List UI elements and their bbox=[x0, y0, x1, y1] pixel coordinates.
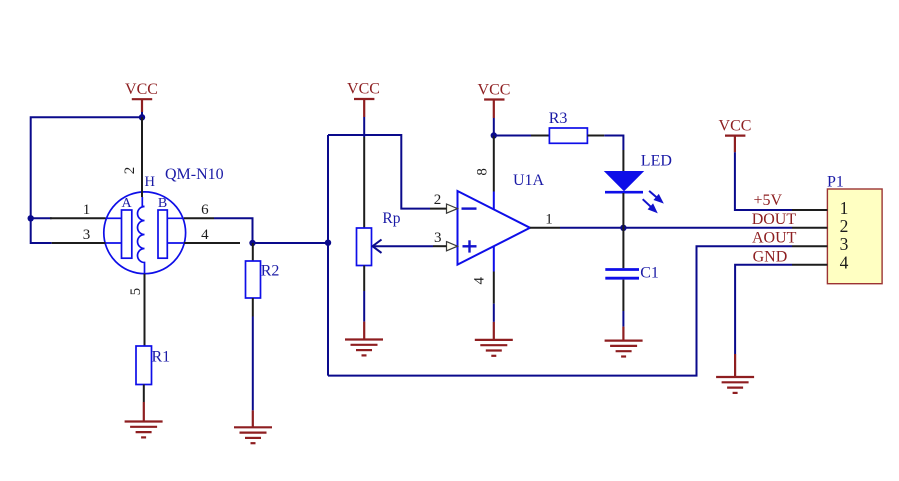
svg-text:VCC: VCC bbox=[347, 81, 380, 98]
svg-text:VCC: VCC bbox=[719, 118, 752, 135]
wire VCC to +5V pin bbox=[735, 152, 792, 210]
wire pin4 node to Rp branch node bbox=[253, 242, 329, 244]
svg-text:QM-N10: QM-N10 bbox=[165, 166, 224, 183]
svg-text:VCC: VCC bbox=[478, 82, 511, 99]
svg-text:2: 2 bbox=[122, 167, 138, 175]
wire pin6 jog down to pin4 node bbox=[214, 218, 253, 243]
wire GND pin down to ground bbox=[735, 265, 792, 354]
svg-text:R3: R3 bbox=[549, 110, 568, 127]
pin 2 of U1A bbox=[430, 192, 447, 209]
node left junction pin1 bbox=[28, 215, 34, 221]
svg-text:VCC: VCC bbox=[125, 81, 158, 98]
ground (C1) bbox=[605, 327, 643, 357]
svg-text:1: 1 bbox=[545, 212, 553, 228]
wire bottom AOUT run bbox=[328, 246, 792, 375]
wire output to DOUT bbox=[560, 227, 792, 229]
svg-text:GND: GND bbox=[753, 249, 788, 266]
pin 1 bbox=[50, 202, 106, 218]
pin 3 of P1 bbox=[792, 234, 849, 254]
svg-text:2: 2 bbox=[434, 192, 442, 208]
connector P1 bbox=[827, 174, 882, 284]
gas sensor QM-N10 body bbox=[104, 192, 186, 274]
pin 1 of U1A (output) bbox=[530, 212, 560, 228]
svg-text:3: 3 bbox=[434, 230, 442, 246]
svg-text:3: 3 bbox=[840, 234, 849, 254]
svg-text:C1: C1 bbox=[640, 265, 659, 282]
Rp wiper arrow bbox=[373, 240, 434, 253]
svg-text:H: H bbox=[145, 174, 156, 190]
ground (op-amp) bbox=[475, 322, 513, 356]
LED emission arrows bbox=[643, 191, 662, 212]
pin 3 of U1A bbox=[433, 230, 447, 246]
ground (below R2) bbox=[234, 410, 272, 443]
potentiometer Rp bbox=[357, 137, 401, 322]
node op-amp supply junction bbox=[491, 132, 497, 138]
resistor R1 bbox=[136, 346, 170, 402]
ground (below R1) bbox=[125, 402, 163, 437]
svg-text:A: A bbox=[121, 196, 132, 211]
pin 4 bbox=[184, 227, 240, 243]
svg-text:R1: R1 bbox=[152, 349, 171, 366]
svg-text:AOUT: AOUT bbox=[752, 230, 797, 247]
svg-text:5: 5 bbox=[128, 288, 144, 296]
resistor R3 bbox=[531, 110, 604, 144]
wire R3 to LED bbox=[604, 136, 623, 151]
op-amp input arrow pin 2 bbox=[447, 204, 458, 213]
pin 6 bbox=[184, 202, 214, 218]
wire top horizontal to op-amp pin2 bbox=[328, 135, 430, 209]
svg-text:4: 4 bbox=[201, 227, 209, 243]
pin 2 (heater top) bbox=[122, 117, 143, 206]
LED D1 bbox=[605, 150, 672, 228]
svg-text:8: 8 bbox=[475, 168, 491, 176]
op-amp input arrow pin 3 bbox=[447, 242, 458, 251]
op-amp U1A bbox=[458, 172, 545, 264]
pin 2 of P1 bbox=[792, 216, 848, 236]
svg-text:4: 4 bbox=[840, 253, 849, 273]
svg-text:R2: R2 bbox=[261, 263, 280, 280]
pin 4 of P1 bbox=[792, 253, 849, 273]
svg-text:3: 3 bbox=[83, 227, 91, 243]
power symbol VCC (op-amp supply) bbox=[478, 82, 511, 136]
pin 5 (heater bottom) bbox=[128, 274, 145, 346]
svg-text:DOUT: DOUT bbox=[752, 211, 797, 228]
node sensor output junction bbox=[325, 240, 331, 246]
pin 3 bbox=[52, 227, 106, 243]
wire top-left loop from VCC to electrode pins 1,3 bbox=[31, 117, 142, 243]
power symbol VCC (sensor heater supply) bbox=[125, 81, 158, 117]
svg-text:P1: P1 bbox=[827, 174, 844, 191]
heater coil inside sensor bbox=[138, 207, 145, 274]
node R2 top junction bbox=[249, 240, 255, 246]
svg-text:4: 4 bbox=[472, 277, 488, 285]
svg-text:LED: LED bbox=[641, 153, 672, 170]
svg-text:2: 2 bbox=[840, 216, 849, 236]
svg-text:1: 1 bbox=[83, 202, 91, 218]
resistor R2 bbox=[246, 243, 280, 410]
pin 1 of P1 bbox=[792, 198, 848, 218]
svg-text:6: 6 bbox=[201, 202, 209, 218]
wire vertical branch x=328 (sensor output to top wire and bottom wire) bbox=[327, 135, 329, 376]
pin 8 of U1A bbox=[475, 136, 494, 210]
power symbol VCC (Rp reference) bbox=[347, 81, 380, 138]
ground (connector) bbox=[716, 354, 754, 393]
power symbol VCC (connector +5V) bbox=[719, 118, 752, 153]
capacitor C1 bbox=[605, 228, 659, 327]
svg-text:U1A: U1A bbox=[513, 172, 545, 189]
node VCC1 junction bbox=[139, 114, 145, 120]
svg-text:Rp: Rp bbox=[382, 210, 400, 227]
pin 4 of U1A bbox=[472, 246, 494, 322]
node output junction bbox=[620, 225, 626, 231]
wire VCC node to R3 bbox=[494, 135, 531, 137]
ground (below Rp) bbox=[345, 322, 383, 356]
svg-text:+5V: +5V bbox=[754, 192, 783, 209]
svg-text:B: B bbox=[158, 196, 167, 211]
